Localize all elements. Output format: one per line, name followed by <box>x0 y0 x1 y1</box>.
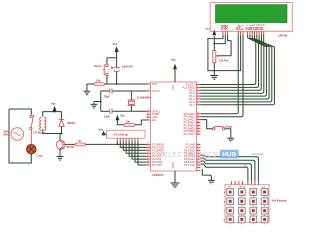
svg-text:16: 16 <box>147 160 149 162</box>
svg-text:LM016L: LM016L <box>278 34 288 38</box>
svg-text:1: 1 <box>197 83 198 85</box>
svg-text:Vcc: Vcc <box>120 113 125 117</box>
svg-text:P1.7: P1.7 <box>189 103 195 107</box>
svg-text:33pF: 33pF <box>104 95 110 98</box>
svg-text:Setup: Setup <box>225 125 232 128</box>
svg-text:11: 11 <box>147 146 149 148</box>
svg-text:30: 30 <box>147 115 149 117</box>
svg-text:22: 22 <box>197 146 199 148</box>
svg-text:27: 27 <box>197 160 199 162</box>
svg-text:GND: GND <box>171 162 175 168</box>
svg-text:10k: 10k <box>126 120 131 123</box>
svg-text:31: 31 <box>147 118 149 120</box>
svg-text:33: 33 <box>197 130 199 132</box>
svg-text:50Hz: 50Hz <box>3 133 10 136</box>
svg-text:RST: RST <box>152 82 158 86</box>
svg-text:2: 2 <box>197 86 198 88</box>
svg-text:Reset: Reset <box>95 65 102 68</box>
svg-text:1K: 1K <box>78 140 81 143</box>
svg-text:13: 13 <box>147 152 149 154</box>
svg-text:Vcc: Vcc <box>113 42 118 46</box>
svg-text:XTAL1: XTAL1 <box>152 89 160 93</box>
svg-text:P3.7/RD: P3.7/RD <box>152 163 162 167</box>
svg-text:36: 36 <box>197 121 199 123</box>
svg-text:33pF: 33pF <box>104 116 110 119</box>
svg-text:18: 18 <box>147 110 149 112</box>
svg-text:11.0592MHz: 11.0592MHz <box>137 96 152 99</box>
svg-text:3: 3 <box>197 89 198 91</box>
svg-text:35: 35 <box>197 124 199 126</box>
svg-text:VCC: VCC <box>171 84 175 90</box>
svg-text:1N4007: 1N4007 <box>67 122 76 125</box>
svg-text:38: 38 <box>197 115 199 117</box>
svg-text:5: 5 <box>197 94 198 96</box>
svg-text:8: 8 <box>197 103 198 105</box>
svg-text:10k Pot: 10k Pot <box>219 59 229 63</box>
svg-text:AT89C51: AT89C51 <box>152 173 164 177</box>
svg-text:10k: 10k <box>96 79 101 82</box>
svg-text:P2.7/A15: P2.7/A15 <box>184 163 195 167</box>
svg-text:10: 10 <box>147 143 149 145</box>
svg-text:R2 L1: R2 L1 <box>240 187 247 189</box>
svg-text:34: 34 <box>197 127 199 129</box>
svg-text:7: 7 <box>197 100 198 102</box>
svg-text:Start/Save: Start/Save <box>252 153 264 156</box>
svg-text:Vcc: Vcc <box>171 58 176 62</box>
svg-text:28: 28 <box>197 163 199 165</box>
svg-text:P0.7/AD7: P0.7/AD7 <box>184 132 196 136</box>
svg-text:19: 19 <box>147 89 149 91</box>
svg-text:4x4 Keypad: 4x4 Keypad <box>272 199 287 203</box>
svg-text:Vcc: Vcc <box>51 102 56 106</box>
svg-text:8 K1 Pull-up: 8 K1 Pull-up <box>114 134 129 137</box>
svg-text:12v Relay: 12v Relay <box>33 131 45 134</box>
svg-text:14: 14 <box>147 155 149 157</box>
svg-text:4: 4 <box>197 92 198 94</box>
svg-text:12: 12 <box>147 149 149 151</box>
svg-text:9: 9 <box>147 82 148 84</box>
svg-text:Load: Load <box>37 155 43 158</box>
svg-text:17: 17 <box>147 163 149 165</box>
svg-text:32: 32 <box>197 132 199 134</box>
svg-text:15: 15 <box>147 157 149 159</box>
svg-text:HUB: HUB <box>222 151 236 158</box>
svg-text:6: 6 <box>197 97 198 99</box>
svg-text:+: + <box>111 67 113 70</box>
svg-text:Key: Key <box>243 165 248 168</box>
svg-text:21: 21 <box>197 143 199 145</box>
svg-text:BC547: BC547 <box>67 146 75 149</box>
svg-text:Vcc: Vcc <box>99 127 104 131</box>
svg-text:37: 37 <box>197 118 199 120</box>
svg-text:29: 29 <box>147 113 149 115</box>
svg-text:10uF/16V: 10uF/16V <box>122 66 133 69</box>
svg-text:EA: EA <box>152 118 156 122</box>
svg-text:ELECTRONICS: ELECTRONICS <box>163 150 218 159</box>
svg-text:Vcc: Vcc <box>205 27 210 30</box>
svg-text:39: 39 <box>197 112 199 114</box>
